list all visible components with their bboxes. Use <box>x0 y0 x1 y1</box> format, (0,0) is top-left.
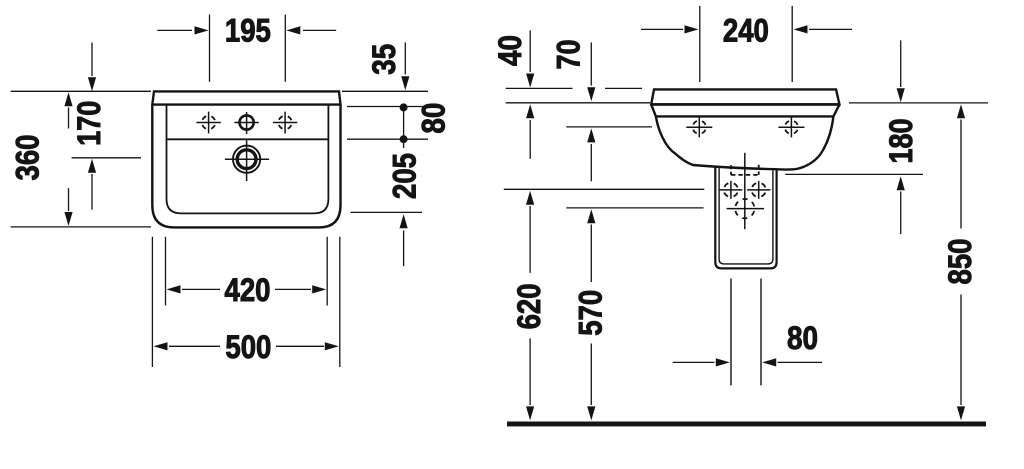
side view pedestal inner lines <box>719 166 773 264</box>
dimension 420 extension lines <box>166 237 328 306</box>
dimension 170 bottom arrow <box>91 174 93 210</box>
side view centre line <box>744 153 746 229</box>
dimension 850 tail and floor arrow <box>960 295 962 406</box>
side view tap hole cross left <box>686 117 712 137</box>
svg-text:850: 850 <box>942 239 978 285</box>
dimension 35 line and arrow <box>404 42 406 74</box>
front ref line ledge right <box>347 138 428 140</box>
side view tap hole cross right <box>778 117 804 137</box>
front view inner basin outline <box>167 105 329 214</box>
dimension 170 top arrow <box>91 43 93 76</box>
front view outer body outline <box>152 105 340 228</box>
front ref line bottom left <box>11 226 151 228</box>
svg-text:170: 170 <box>71 101 107 146</box>
front view right tap hole cross <box>273 112 297 134</box>
dimension 70 top arrow <box>590 42 592 85</box>
side view rim band <box>651 104 839 116</box>
dimension 240 line and arrows <box>641 28 852 30</box>
side view dashed fixing bracket left leg <box>730 165 732 175</box>
side ref line A rim top <box>506 87 642 89</box>
dimension 205 arrow and tail <box>403 230 405 266</box>
dimension 360 bottom arrow <box>68 188 70 211</box>
svg-text:40: 40 <box>492 35 528 66</box>
dimension 80 front dots and line <box>403 107 405 148</box>
svg-text:620: 620 <box>511 283 547 329</box>
svg-text:420: 420 <box>225 272 271 308</box>
svg-text:240: 240 <box>723 13 769 49</box>
svg-text:205: 205 <box>386 153 422 199</box>
dimension 180 top arrow <box>900 40 902 87</box>
side view pedestal outer <box>715 166 776 269</box>
floor line <box>507 422 986 427</box>
dimension 570 top arrow <box>590 225 592 283</box>
svg-text:195: 195 <box>225 13 271 49</box>
side view fixing hole left <box>719 181 742 199</box>
front ref line bowl bottom right <box>351 211 423 213</box>
side ref line B rim front left <box>506 102 650 104</box>
dimension 500 extension lines <box>152 237 339 367</box>
front view centre tap hole <box>234 112 258 134</box>
side view rim front edge thick line <box>651 103 839 106</box>
side ref line B right <box>849 102 988 104</box>
dimension 180 bottom arrow <box>900 192 902 235</box>
svg-text:35: 35 <box>366 44 402 75</box>
svg-text:80: 80 <box>787 320 818 356</box>
svg-text:500: 500 <box>225 329 271 365</box>
dimension 70 bottom arrow <box>590 144 592 181</box>
side ref line D 620 level <box>504 188 705 190</box>
side ref line C tap level <box>566 126 652 128</box>
side ref line 180 bottom <box>785 173 923 175</box>
dimension 195 extension lines <box>210 15 286 82</box>
front view rim slab <box>152 91 340 104</box>
dimension 195 line and arrows <box>157 29 336 31</box>
side view fixing hole right <box>747 181 770 199</box>
dimension 620 tail and floor arrow <box>529 338 531 405</box>
side view body outline <box>656 116 834 169</box>
dimension 620 top arrow <box>529 206 531 273</box>
front view ledge line <box>167 138 329 140</box>
dimension 360 top arrow <box>68 108 70 129</box>
front view drain <box>225 140 269 181</box>
svg-text:570: 570 <box>573 290 609 336</box>
front ref line drain level <box>72 157 141 159</box>
front ref line rim top right <box>342 90 428 92</box>
svg-text:360: 360 <box>10 135 46 181</box>
svg-text:70: 70 <box>551 40 587 70</box>
front ref line rim bottom right <box>347 106 428 108</box>
dimension 80 side line and arrows <box>673 361 822 363</box>
dimension 570 tail and floor arrow <box>590 344 592 406</box>
side ref line E 570 level <box>566 207 703 209</box>
svg-text:180: 180 <box>883 119 919 164</box>
svg-text:80: 80 <box>416 103 452 134</box>
dimension 40 bottom arrow <box>529 120 531 159</box>
front ref line rim top left <box>11 90 151 92</box>
dimension 500 line and arrows <box>169 345 324 347</box>
side view drain hole dashed <box>727 199 765 218</box>
front view left tap hole cross <box>196 112 220 134</box>
side view dashed fixing bracket right leg <box>758 165 760 175</box>
side view waste pipe lines <box>731 279 761 386</box>
dimension 850 top arrow <box>960 120 962 229</box>
side view dashed fixing bracket bottom bar <box>731 174 759 176</box>
dimension 420 line and arrows <box>182 288 311 290</box>
dimension 40 top arrow <box>529 30 531 72</box>
side view rim slab <box>651 89 839 104</box>
dimension 240 extension lines <box>700 6 792 82</box>
